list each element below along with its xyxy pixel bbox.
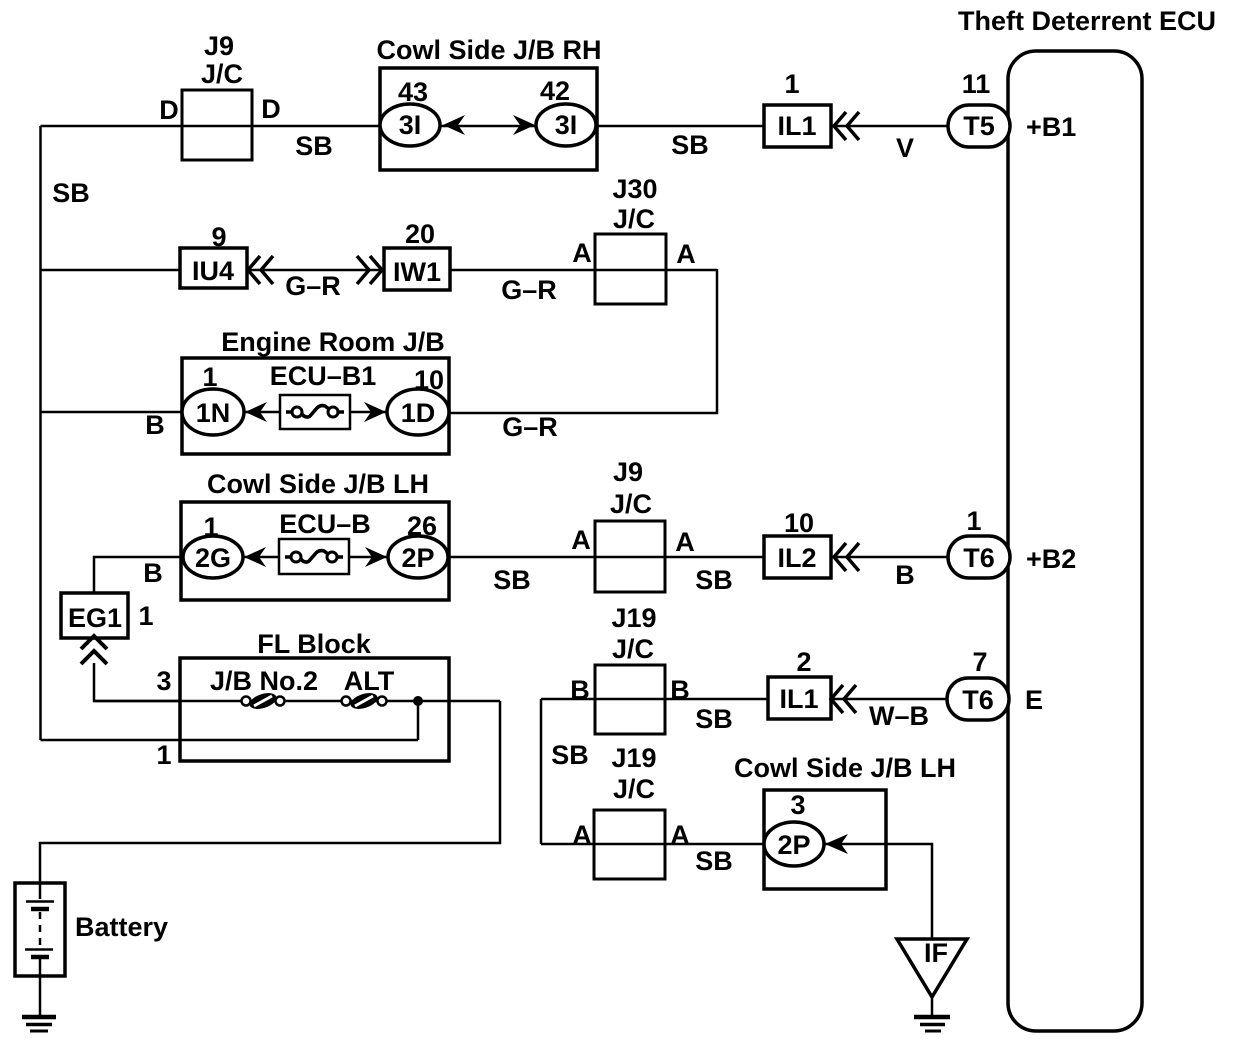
pin B right of J19 upper — [670, 675, 690, 705]
pin D right of J9 — [261, 94, 281, 124]
svg-text:D: D — [159, 95, 179, 125]
junction connector J19 J/C lower — [594, 743, 665, 879]
svg-text:Engine Room J/B: Engine Room J/B — [221, 327, 445, 357]
svg-text:2P: 2P — [777, 830, 810, 860]
wire SB trunk vertical left — [39, 126, 42, 740]
svg-text:1: 1 — [966, 506, 981, 536]
svg-text:J19: J19 — [611, 603, 656, 633]
wire row1 +B1 net horizontal — [41, 125, 949, 128]
fuse ECU-B1 symbol — [244, 395, 387, 429]
svg-text:J/C: J/C — [613, 774, 655, 804]
svg-text:SB: SB — [695, 704, 733, 734]
pin 3 label FL block — [156, 666, 171, 696]
chevrons into EG1 — [81, 636, 107, 664]
wire label SB row1 — [295, 131, 333, 161]
wire label V — [896, 133, 914, 163]
wire label SB row4 left — [493, 565, 531, 595]
connector 2P oval — [388, 536, 448, 578]
svg-text:A: A — [676, 239, 696, 269]
svg-text:A: A — [572, 820, 592, 850]
arrowhead into 2P lower — [825, 834, 848, 854]
svg-text:J/C: J/C — [612, 634, 654, 664]
wire IF triangle to ground — [931, 997, 934, 1016]
svg-text:W–B: W–B — [869, 701, 929, 731]
svg-text:SB: SB — [52, 178, 90, 208]
svg-text:11: 11 — [962, 69, 991, 99]
wire label SB row4 right — [695, 565, 733, 595]
wire row2 G-R net IU4 to J30 and down to 1D — [41, 269, 718, 413]
earth ground under IF — [914, 1017, 950, 1031]
wire label SB row5 — [695, 704, 733, 734]
pin A right of J19 lower — [670, 820, 690, 850]
svg-text:V: V — [896, 133, 914, 163]
wire row4 SB net 2P to T6 — [449, 556, 948, 559]
chevrons into IL1 row5 — [831, 685, 856, 713]
junction block Cowl Side J/B RH — [376, 35, 601, 170]
svg-text:G–R: G–R — [502, 412, 558, 442]
arrowhead into 1D — [364, 402, 386, 422]
svg-text:D: D — [261, 94, 281, 124]
fusible link block FL Block — [180, 629, 449, 761]
connector 2P oval lower — [764, 822, 824, 866]
wire FL block internal to pin 1 — [41, 701, 501, 740]
svg-text:1: 1 — [138, 601, 153, 631]
svg-text:1: 1 — [156, 740, 171, 770]
svg-text:SB: SB — [493, 565, 531, 595]
wire label SB row1 right — [671, 130, 709, 160]
svg-text:T5: T5 — [963, 111, 995, 141]
svg-text:3I: 3I — [399, 110, 422, 140]
svg-text:B: B — [145, 410, 165, 440]
pin A right of J9 middle — [675, 527, 695, 557]
svg-text:10: 10 — [784, 508, 814, 538]
pin B left of J19 upper — [570, 675, 590, 705]
connector IL1 pin 2 — [768, 647, 831, 719]
svg-text:1D: 1D — [401, 398, 436, 428]
pin 1 label 1N — [202, 362, 217, 392]
svg-text:IW1: IW1 — [393, 257, 441, 287]
pin 26 label 2P — [407, 511, 437, 541]
wire EG1 to FL block pin 3 — [94, 663, 180, 701]
wire label W-B — [869, 701, 929, 731]
wire battery to ground — [39, 976, 42, 1016]
fusible link J/B No.2 — [210, 666, 318, 712]
svg-text:J/C: J/C — [201, 59, 243, 89]
svg-text:IF: IF — [924, 938, 948, 968]
fusible link ALT — [342, 666, 395, 712]
pin A left of J30 — [572, 238, 592, 268]
svg-text:Cowl Side J/B LH: Cowl Side J/B LH — [207, 469, 429, 499]
pin 1 label 2G — [203, 512, 218, 542]
svg-text:SB: SB — [671, 130, 709, 160]
svg-text:2: 2 — [796, 647, 811, 677]
svg-text:9: 9 — [211, 222, 226, 252]
svg-text:20: 20 — [405, 219, 435, 249]
wire label SB vertical — [551, 740, 589, 770]
svg-text:SB: SB — [695, 565, 733, 595]
svg-text:A: A — [670, 820, 690, 850]
svg-text:IU4: IU4 — [192, 256, 234, 286]
svg-text:SB: SB — [295, 131, 333, 161]
svg-text:ECU–B1: ECU–B1 — [270, 361, 377, 391]
svg-text:T6: T6 — [963, 543, 995, 573]
pin 43 label — [398, 77, 428, 107]
arrowhead into 3I right — [513, 115, 535, 135]
connector 3I right oval — [536, 104, 596, 146]
svg-text:J/B No.2: J/B No.2 — [210, 666, 318, 696]
wire label B row4 — [895, 560, 915, 590]
junction block Cowl Side J/B LH upper — [181, 469, 449, 600]
wire label G-R row2 left — [285, 271, 341, 301]
svg-text:Theft Deterrent ECU: Theft Deterrent ECU — [958, 6, 1216, 36]
fuse label ECU-B — [279, 509, 371, 539]
svg-text:A: A — [572, 238, 592, 268]
wire row4 B net 2G to EG1 — [94, 557, 183, 593]
svg-text:J/C: J/C — [613, 204, 655, 234]
pin A left of J19 lower — [572, 820, 592, 850]
svg-text:J/C: J/C — [610, 489, 652, 519]
ECU pin +B2 — [1026, 544, 1076, 574]
fuse ECU-B symbol — [243, 539, 388, 574]
junction block Engine Room J/B — [182, 327, 449, 454]
svg-text:42: 42 — [540, 76, 570, 106]
wire row5 SB net J19 to T6 E — [541, 698, 947, 701]
svg-text:G–R: G–R — [285, 271, 341, 301]
svg-text:ALT: ALT — [344, 666, 395, 696]
connector IL2 pin 10 — [764, 508, 831, 578]
pin D left of J9 — [159, 95, 179, 125]
svg-text:B: B — [670, 675, 690, 705]
connector 2G oval — [183, 536, 243, 578]
svg-text:Cowl Side J/B RH: Cowl Side J/B RH — [376, 35, 601, 65]
svg-text:A: A — [675, 527, 695, 557]
chevrons into IU4 — [248, 256, 273, 284]
junction dot in FL block — [413, 696, 423, 706]
pin 1 label EG1 — [138, 601, 153, 631]
connector T6 pin 1 — [948, 506, 1010, 578]
ground connector EG1 — [61, 593, 128, 638]
svg-text:SB: SB — [695, 846, 733, 876]
ECU pin E — [1025, 685, 1043, 715]
svg-text:Cowl Side J/B LH: Cowl Side J/B LH — [734, 753, 956, 783]
svg-text:E: E — [1025, 685, 1043, 715]
svg-text:EG1: EG1 — [68, 603, 122, 633]
svg-text:G–R: G–R — [501, 275, 557, 305]
pin 1 label FL block — [156, 740, 171, 770]
wire label G-R row2 right — [501, 275, 557, 305]
svg-text:FL Block: FL Block — [257, 629, 372, 659]
junction connector J9 J/C top — [182, 31, 252, 160]
svg-text:3: 3 — [156, 666, 171, 696]
battery — [15, 883, 168, 976]
connector IU4 pin 9 — [180, 222, 247, 288]
arrowhead into 2G — [244, 547, 266, 567]
pin 10 label 1D — [414, 365, 444, 395]
svg-text:2P: 2P — [401, 543, 434, 573]
wire row6 SB net J19 to 2P — [541, 843, 767, 846]
svg-text:T6: T6 — [962, 685, 994, 715]
svg-text:2G: 2G — [195, 543, 231, 573]
svg-text:B: B — [895, 560, 915, 590]
chevrons into IL2 — [834, 543, 859, 571]
connector 1D oval — [387, 389, 449, 435]
svg-text:B: B — [570, 675, 590, 705]
pin B label 1N — [145, 410, 165, 440]
wire label SB row6 — [695, 846, 733, 876]
wire row3 B net trunk to 1N — [41, 411, 183, 414]
junction block Cowl Side J/B LH lower — [734, 753, 956, 889]
ECU theft deterrent ECU body — [958, 6, 1216, 1031]
connector T6 pin 7 — [947, 647, 1009, 720]
svg-text:Battery: Battery — [75, 912, 168, 942]
svg-text:A: A — [571, 525, 591, 555]
junction connector J30 J/C — [595, 174, 666, 304]
svg-text:3: 3 — [790, 790, 805, 820]
svg-text:J19: J19 — [611, 743, 656, 773]
junction connector J19 J/C upper — [595, 603, 665, 734]
wire SB vertical J19 B to J19 A — [540, 699, 543, 844]
arrowhead into 2P — [365, 547, 387, 567]
pin 3 label 2P lower — [790, 790, 805, 820]
pin B label 2G — [143, 558, 163, 588]
connector 3I left oval — [380, 104, 440, 146]
arrowhead into 1N — [245, 402, 267, 422]
wire label SB trunk — [52, 178, 90, 208]
svg-text:ECU–B: ECU–B — [279, 509, 371, 539]
svg-text:J30: J30 — [612, 174, 657, 204]
svg-text:B: B — [143, 558, 163, 588]
svg-text:IL1: IL1 — [777, 111, 816, 141]
svg-text:7: 7 — [972, 647, 987, 677]
connector 1N oval — [182, 389, 244, 435]
chevrons into IW1 — [357, 256, 382, 284]
pin 42 label — [540, 76, 570, 106]
svg-text:1: 1 — [784, 69, 799, 99]
wire 2P to IF ground — [825, 844, 932, 939]
fuse label ECU-B1 — [270, 361, 377, 391]
svg-text:IL1: IL1 — [779, 684, 818, 714]
wire FL block to battery — [40, 701, 500, 883]
svg-text:SB: SB — [551, 740, 589, 770]
wire label G-R to 1D — [502, 412, 558, 442]
svg-text:3I: 3I — [555, 110, 578, 140]
svg-text:+B1: +B1 — [1026, 112, 1076, 142]
pin A right of J30 — [676, 239, 696, 269]
arrowhead into 3I left — [443, 115, 465, 135]
svg-text:+B2: +B2 — [1026, 544, 1076, 574]
connector IW1 pin 20 — [384, 219, 450, 290]
earth ground under battery — [22, 1017, 56, 1031]
connector IL1 pin 1 — [764, 69, 831, 147]
svg-text:1N: 1N — [196, 398, 231, 428]
ECU pin +B1 — [1026, 112, 1076, 142]
ground symbol IF triangle — [897, 938, 967, 997]
svg-text:IL2: IL2 — [777, 543, 816, 573]
svg-text:J9: J9 — [613, 457, 643, 487]
pin A left of J9 middle — [571, 525, 591, 555]
svg-text:J9: J9 — [204, 31, 234, 61]
connector T5 pin 11 — [948, 69, 1010, 147]
chevrons into IL1 — [834, 112, 859, 140]
junction connector J9 J/C middle — [595, 457, 665, 592]
